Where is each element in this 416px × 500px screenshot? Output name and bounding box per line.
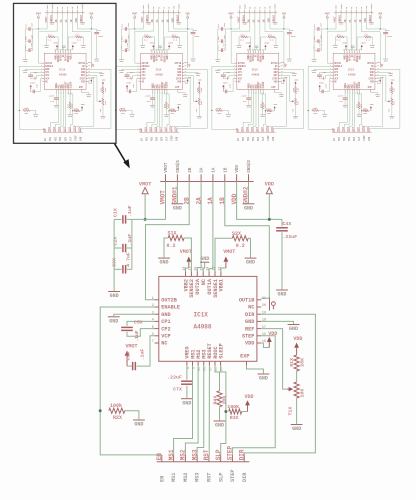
arrow from box to main schematic xyxy=(115,144,127,164)
thumbnail schematic 4 xyxy=(308,3,400,141)
thumbnail schematic 1 xyxy=(19,3,111,141)
thumbnail schematic 3 xyxy=(211,3,303,141)
thumbnail schematic 2 xyxy=(115,3,207,141)
main schematic xyxy=(99,159,316,482)
selection box around thumbnail 1 xyxy=(14,3,117,143)
